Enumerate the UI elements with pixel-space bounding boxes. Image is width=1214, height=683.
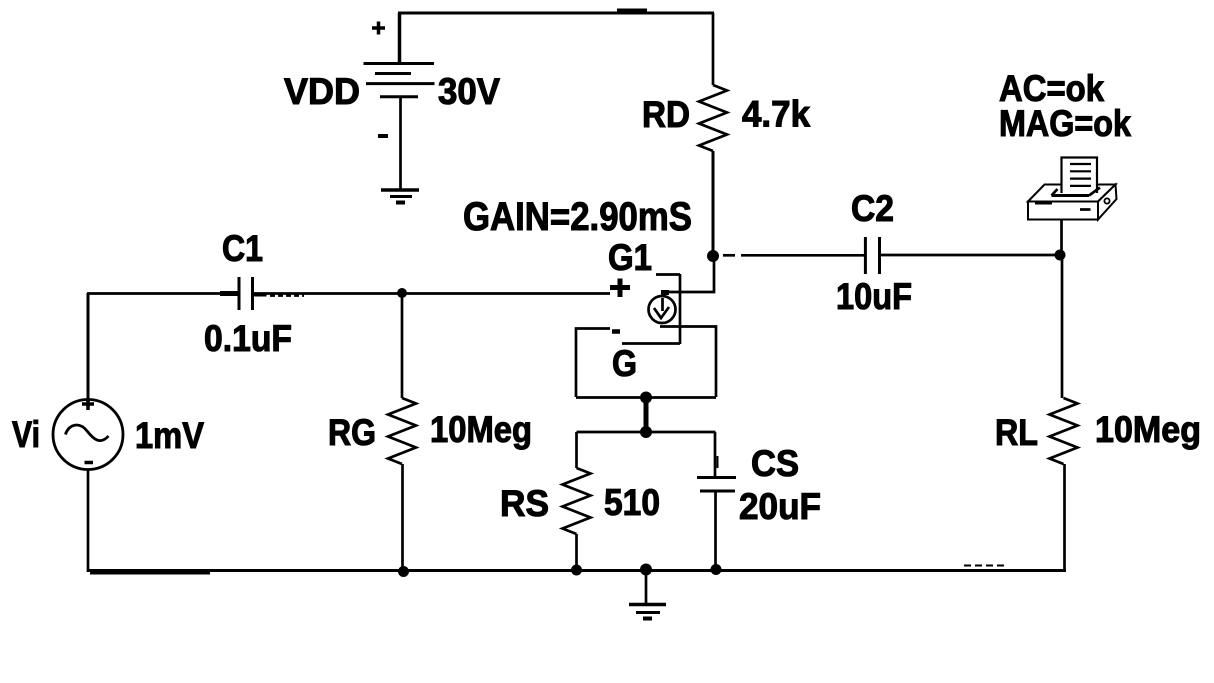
svg-text:510: 510 xyxy=(604,482,660,523)
wire Vi bottom lead xyxy=(87,470,90,573)
wire RS bottom lead xyxy=(575,534,578,570)
svg-text:RL: RL xyxy=(995,412,1038,453)
capacitor C1 xyxy=(239,277,253,310)
source Vi sine xyxy=(66,425,109,441)
wire CS top lead xyxy=(714,432,717,477)
vccs G1 body bracket xyxy=(622,274,680,344)
node output xyxy=(1055,250,1066,261)
svg-text:10Meg: 10Meg xyxy=(1095,409,1201,450)
resistor RD xyxy=(699,85,727,151)
svg-text:Vi: Vi xyxy=(12,414,40,455)
wire printer probe lead xyxy=(1060,219,1063,251)
wire RL top lead xyxy=(1061,255,1064,398)
svg-text:G1: G1 xyxy=(608,237,652,278)
capacitor CS xyxy=(697,456,736,491)
wire ground stem xyxy=(645,570,648,604)
wire RS CS top row xyxy=(577,431,716,434)
wire battery bottom lead xyxy=(399,98,402,191)
wire CS bottom lead xyxy=(714,491,717,570)
source Vi minus xyxy=(85,461,94,465)
svg-text:4.7k: 4.7k xyxy=(742,94,810,135)
wire Vi top lead xyxy=(87,293,90,400)
svg-text:RG: RG xyxy=(328,412,376,453)
node drain xyxy=(707,250,719,262)
printer probe icon xyxy=(1028,158,1117,220)
ground bottom xyxy=(629,605,666,619)
node source 2 xyxy=(640,426,652,438)
wire bottom rail xyxy=(88,569,1066,572)
svg-text:10Meg: 10Meg xyxy=(430,409,532,450)
battery VDD plates xyxy=(364,64,435,97)
node ground bottom xyxy=(640,564,652,576)
wire top rail VDD to RD xyxy=(398,11,714,14)
ground under battery xyxy=(381,190,419,203)
svg-text:GAIN=2.90mS: GAIN=2.90mS xyxy=(463,195,692,239)
source Vi circle xyxy=(53,400,123,470)
wire RG bottom lead xyxy=(401,464,404,570)
source Vi plus xyxy=(82,399,94,411)
svg-text:G: G xyxy=(612,343,637,384)
wire RD top lead xyxy=(712,13,715,85)
wire RL bottom lead xyxy=(1063,464,1066,570)
wire C1 to G1 input xyxy=(253,292,610,295)
svg-text:10uF: 10uF xyxy=(836,276,912,317)
svg-text:RD: RD xyxy=(642,94,690,135)
wire battery top lead xyxy=(398,13,402,64)
svg-text:MAG=ok: MAG=ok xyxy=(999,103,1131,144)
G1 plus label xyxy=(610,279,630,298)
G1 minus label xyxy=(612,329,620,334)
wire Vi to C1 xyxy=(87,292,239,295)
node CS bottom xyxy=(711,564,722,575)
svg-text:C2: C2 xyxy=(851,188,894,229)
battery minus label xyxy=(378,134,388,138)
wire source row xyxy=(576,396,716,399)
wire RD bottom lead xyxy=(712,151,715,256)
resistor RL xyxy=(1050,398,1078,464)
node RG top xyxy=(397,288,407,298)
wire between source nodes xyxy=(644,397,649,432)
wire RS top lead xyxy=(575,432,578,468)
svg-text:1mV: 1mV xyxy=(135,415,204,456)
vccs G1 arrow xyxy=(654,307,669,318)
node RG bottom xyxy=(398,566,409,577)
wire drain to C2 xyxy=(723,254,735,257)
wire G1 minus input loop xyxy=(576,329,610,398)
wire G1 output minus to source node xyxy=(660,327,716,398)
battery plus label xyxy=(372,22,385,35)
svg-text:RS: RS xyxy=(500,483,549,524)
svg-text:30V: 30V xyxy=(438,71,500,112)
wire RG top lead xyxy=(401,293,404,398)
node RS bottom xyxy=(571,565,582,576)
svg-text:C1: C1 xyxy=(222,228,263,269)
svg-text:20uF: 20uF xyxy=(739,486,821,527)
resistor RS xyxy=(563,468,591,534)
wire C2 to output node xyxy=(879,254,1061,257)
node source 1 xyxy=(640,392,652,404)
resistor RG xyxy=(388,398,416,464)
wire G1 output plus to drain node xyxy=(661,260,714,292)
capacitor C2 xyxy=(865,237,879,274)
svg-text:0.1uF: 0.1uF xyxy=(204,318,292,359)
vccs G1 circle xyxy=(649,296,676,323)
svg-text:VDD: VDD xyxy=(284,71,360,112)
svg-text:CS: CS xyxy=(751,443,799,484)
